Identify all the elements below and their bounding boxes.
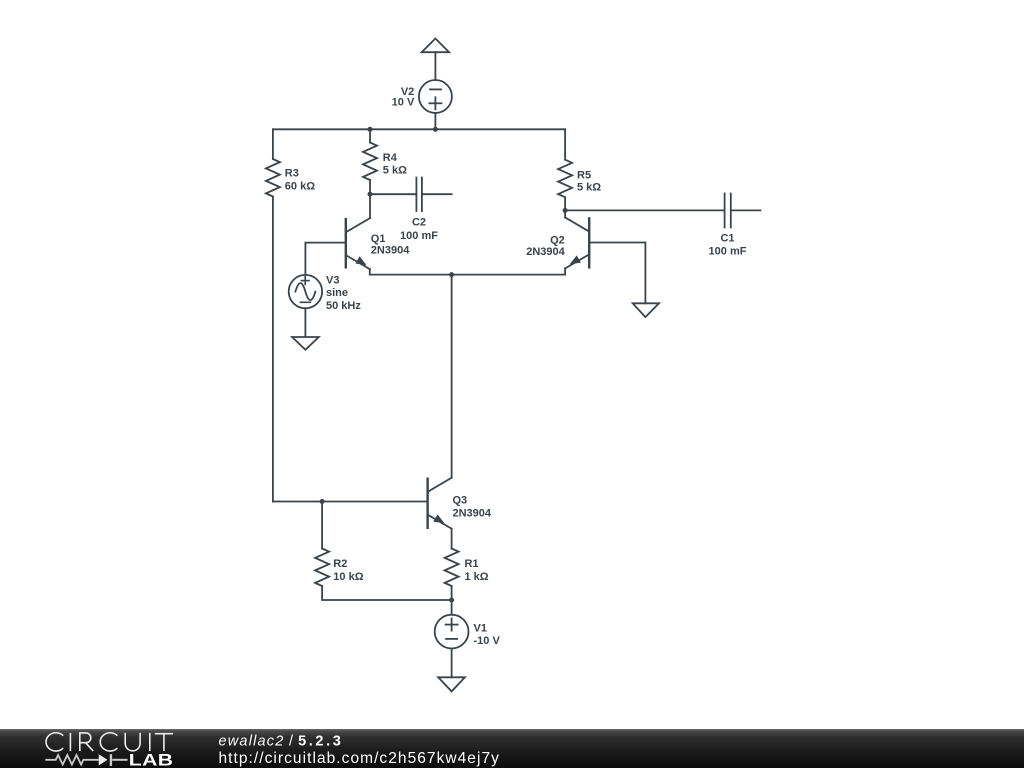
footer bar: [0, 729, 1024, 768]
wire Q1 base to V3: [305, 243, 345, 275]
CircuitLab logo: CIRCUIT wordmark: [46, 733, 173, 751]
svg-text:V1: V1: [474, 623, 487, 635]
svg-text:-10 V: -10 V: [474, 635, 501, 647]
svg-text:10 V: 10 V: [392, 96, 415, 108]
voltage source V1: [451, 600, 453, 615]
wire top rail: [273, 128, 565, 130]
node R4-C2: [368, 192, 373, 197]
capacitor C1: [724, 194, 726, 228]
transistor Q1: [345, 219, 347, 267]
svg-text:R4: R4: [383, 152, 398, 164]
wire V1 to ground: [451, 649, 453, 678]
capacitor C2: [415, 178, 417, 212]
svg-text:http://circuitlab.com/c2h567kw: http://circuitlab.com/c2h567kw4ej7y: [219, 750, 500, 767]
resistor R3: [272, 129, 274, 159]
wire emitter junction to Q3 collector: [451, 275, 453, 478]
svg-text:Q1: Q1: [371, 233, 386, 245]
transistor Q3: [426, 479, 428, 528]
svg-text:R3: R3: [285, 168, 299, 180]
svg-text:50 kHz: 50 kHz: [326, 300, 361, 312]
svg-text:Q2: Q2: [550, 235, 565, 247]
resistor R2: [321, 502, 323, 549]
svg-text:2N3904: 2N3904: [371, 245, 410, 257]
voltage source V3 (sine): [289, 275, 322, 308]
svg-text:5 kΩ: 5 kΩ: [383, 164, 407, 176]
svg-text:10 kΩ: 10 kΩ: [333, 571, 363, 583]
wire Q2 base to ground: [589, 243, 645, 304]
node R2 tap: [320, 499, 325, 504]
svg-text:60 kΩ: 60 kΩ: [285, 180, 315, 192]
wire V3 to ground: [304, 308, 306, 337]
node R5-C1: [563, 208, 568, 213]
node rail-R4: [368, 127, 373, 132]
wire R5 to C1: [565, 209, 725, 211]
transistor Q2: [588, 218, 590, 267]
wire R3 down left side: [272, 197, 274, 502]
wire power flag to V2: [434, 52, 436, 80]
node emitters-Q3: [449, 272, 454, 277]
resistor R4: [369, 129, 371, 142]
svg-text:100 mF: 100 mF: [400, 230, 438, 242]
wire to Q3 base: [273, 501, 428, 503]
node rail-V2: [433, 127, 438, 132]
svg-text:2N3904: 2N3904: [526, 246, 565, 258]
emitter rail Q1-Q2: [370, 274, 565, 276]
svg-text:V3: V3: [326, 274, 339, 286]
svg-text:LAB: LAB: [129, 752, 174, 768]
ground right of Q2: [633, 303, 659, 317]
ground below V1: [438, 677, 465, 691]
svg-text:ewallac2 / 5.2.3: ewallac2 / 5.2.3: [219, 734, 344, 750]
CircuitLab logo: resistor-diode icon: [45, 754, 127, 766]
node R1-V1: [449, 598, 454, 603]
svg-text:C1: C1: [720, 233, 734, 245]
svg-text:R1: R1: [465, 558, 479, 570]
svg-text:100 mF: 100 mF: [709, 246, 747, 258]
resistor R1: [445, 549, 459, 587]
svg-text:2N3904: 2N3904: [453, 508, 492, 520]
svg-text:sine: sine: [326, 287, 348, 299]
wire V2 to top rail: [434, 113, 436, 129]
svg-text:R2: R2: [333, 558, 347, 570]
svg-text:Q3: Q3: [453, 495, 468, 507]
svg-text:5 kΩ: 5 kΩ: [577, 182, 601, 194]
junction node dots: [320, 127, 568, 603]
svg-text:1 kΩ: 1 kΩ: [465, 571, 489, 583]
svg-text:C2: C2: [412, 217, 426, 229]
wire R4 to C2: [370, 193, 416, 195]
resistor R5: [564, 129, 566, 159]
power flag VCC above V2: [422, 39, 449, 53]
svg-text:R5: R5: [577, 169, 591, 181]
ground below V3: [292, 337, 319, 350]
voltage source V2: [419, 80, 452, 113]
